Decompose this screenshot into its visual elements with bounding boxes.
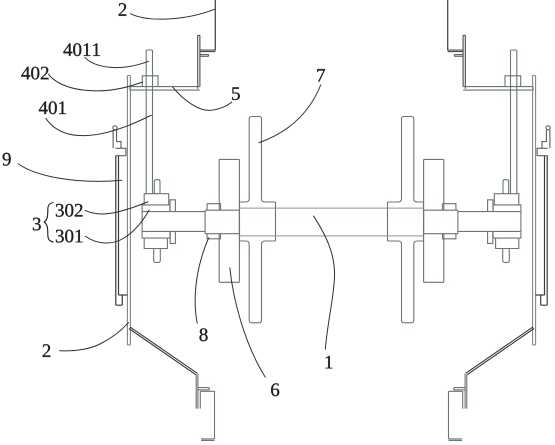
hub top step	[207, 204, 220, 211]
leader 401	[46, 115, 152, 136]
lower flange rect right end bearing	[493, 231, 521, 238]
label 302	[56, 204, 83, 217]
label 3	[33, 218, 41, 231]
bracket 2 top-left upright	[198, 35, 200, 88]
label 9	[3, 153, 11, 166]
plate outer right	[533, 76, 536, 345]
upper wide block 302	[144, 194, 169, 205]
gear rect right	[424, 159, 444, 282]
bottom bracket channel	[200, 391, 214, 440]
upper key right	[503, 180, 509, 194]
wheel foot	[240, 199, 276, 245]
lower flange rect of end bearing	[142, 231, 170, 238]
leader 5	[172, 86, 232, 110]
gear rect 6	[219, 159, 239, 282]
bottom bracket 2 diagonal	[129, 327, 197, 375]
lower wide block	[144, 238, 167, 248]
upper wide block right	[494, 194, 519, 205]
leader 302	[85, 202, 148, 214]
label 5	[232, 87, 240, 100]
hub block 8	[205, 210, 239, 234]
leader bottom 2	[59, 322, 129, 351]
leader 301	[85, 210, 149, 243]
lower step right end bearing	[488, 231, 493, 243]
bottom bracket verticals	[196, 374, 198, 409]
shaft 1	[240, 208, 423, 236]
bracket 2 top-right tick	[454, 55, 463, 57]
leader 8	[195, 238, 209, 324]
pin left circle	[113, 126, 117, 130]
bracket 2 top-left tick	[200, 55, 209, 57]
bottom bracket right channel	[449, 391, 463, 440]
leader 9	[18, 164, 122, 182]
post 4011	[146, 50, 152, 194]
leader 7	[259, 85, 321, 143]
label 402	[21, 67, 48, 80]
leader 4011	[85, 57, 150, 67]
plate dark right	[536, 156, 548, 306]
label 401	[39, 101, 66, 114]
journal band right	[458, 212, 521, 232]
bracket 2 top-left horizontal	[200, 50, 216, 52]
label 2 bottom	[43, 344, 51, 357]
upper flange rect right end bearing	[493, 205, 521, 212]
bracket 2 top-right horizontal	[448, 50, 464, 52]
label 6	[271, 383, 279, 396]
pin left body	[113, 130, 126, 156]
flange 5 left	[130, 87, 200, 91]
hub block right	[424, 210, 458, 234]
hub top step right	[443, 204, 456, 211]
label 8	[200, 328, 208, 341]
hub bottom step	[207, 234, 220, 239]
plate 9 dark left	[116, 156, 128, 306]
post right	[511, 50, 517, 194]
pin right circle	[546, 126, 550, 130]
journal band 301	[142, 212, 205, 232]
upper key	[154, 180, 160, 194]
label 2 top	[119, 3, 127, 16]
upper flange rect of end bearing	[142, 205, 170, 212]
block right of post	[505, 76, 521, 87]
plate outer left	[127, 76, 130, 345]
bottom bracket tick	[198, 388, 209, 390]
leader 402	[48, 74, 142, 91]
label 1	[326, 356, 333, 369]
lower wide block right	[496, 238, 519, 248]
lower key right	[503, 249, 510, 263]
bottom bracket right tick	[454, 388, 465, 390]
wheel lower bar	[249, 245, 261, 323]
right half structure (mirror)	[388, 0, 551, 440]
bracket 2 top-right upright	[463, 35, 465, 88]
pin right body	[537, 130, 550, 156]
block 402	[142, 76, 158, 87]
bracket 2 top-left tall line	[214, 0, 216, 51]
flange right	[463, 87, 533, 91]
wheel right foot	[388, 199, 424, 245]
upper step right of end bearing	[170, 200, 175, 212]
lower step right of end bearing	[170, 231, 175, 243]
wheel right lower bar	[402, 245, 414, 323]
label 7	[317, 69, 325, 81]
upper step right end bearing	[488, 200, 493, 212]
leader 1	[313, 216, 334, 350]
brace for 3	[44, 203, 53, 243]
hub bottom step right	[443, 234, 456, 239]
leader 6	[230, 268, 266, 378]
lower key	[154, 249, 161, 263]
left half structure	[113, 0, 276, 440]
label 301	[56, 230, 83, 243]
bottom bracket right verticals	[465, 374, 467, 409]
label 4011	[63, 43, 100, 56]
bracket 2 top-right tall line	[447, 0, 449, 51]
wheel right upper bar	[402, 117, 414, 199]
bottom bracket right diagonal	[466, 327, 534, 375]
leader for top label 2	[130, 9, 215, 19]
wheel 7 upper bar	[249, 117, 261, 199]
